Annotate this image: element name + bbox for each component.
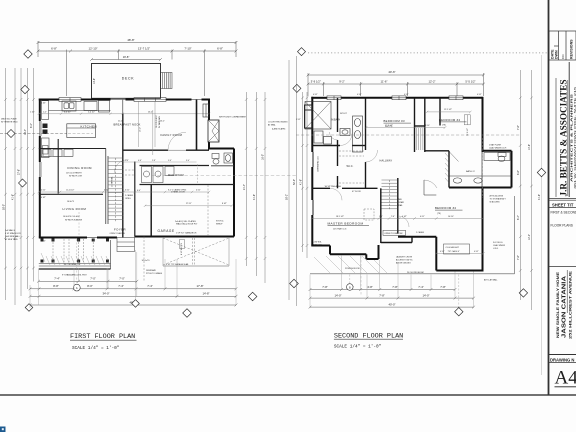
svg-text:12'-2 1/2": 12'-2 1/2" bbox=[444, 109, 452, 111]
closets bbox=[417, 115, 471, 150]
svg-text:23'-2": 23'-2" bbox=[148, 111, 153, 113]
family room south wall bbox=[124, 149, 210, 151]
svg-text:14'-8": 14'-8" bbox=[528, 144, 531, 150]
left bay bump bbox=[305, 105, 313, 128]
svg-text:5'-0": 5'-0" bbox=[168, 160, 172, 162]
svg-text:7'-4": 7'-4" bbox=[118, 284, 124, 288]
svg-text:TO STORAGE ATT: TO STORAGE ATT bbox=[490, 198, 507, 201]
svg-text:AT SEAL: AT SEAL bbox=[268, 123, 276, 126]
svg-text:W/ FANS ABV: W/ FANS ABV bbox=[158, 115, 161, 128]
svg-text:1'-0": 1'-0" bbox=[125, 160, 129, 162]
left wall window thin bbox=[40, 121, 41, 177]
svg-text:FIRST FLOOR PLAN: FIRST FLOOR PLAN bbox=[70, 333, 135, 341]
svg-text:10'-10": 10'-10" bbox=[448, 216, 454, 218]
svg-text:(7'8): (7'8) bbox=[442, 125, 446, 127]
svg-text:SCALE 1/4" = 1'-0": SCALE 1/4" = 1'-0" bbox=[334, 345, 382, 350]
svg-text:CLG HEIGHT: CLG HEIGHT bbox=[446, 247, 460, 249]
svg-text:OPEN TO BELOW: OPEN TO BELOW bbox=[384, 233, 403, 235]
svg-text:18'-1 1/2": 18'-1 1/2" bbox=[336, 216, 344, 218]
svg-text:FLOOR PLANS: FLOOR PLANS bbox=[551, 224, 573, 228]
svg-text:GARAGE: GARAGE bbox=[158, 229, 175, 233]
svg-text:7'-10": 7'-10" bbox=[184, 46, 191, 50]
svg-text:SKYLIT: SKYLIT bbox=[340, 113, 348, 115]
svg-text:50'-2": 50'-2" bbox=[286, 194, 289, 200]
svg-text:COLOR THRU SIDING: COLOR THRU SIDING bbox=[268, 122, 288, 124]
svg-text:252 HILLCREST AVENUE: 252 HILLCREST AVENUE bbox=[569, 270, 573, 339]
svg-text:U.D.F.: U.D.F. bbox=[493, 248, 499, 250]
svg-text:11'-6": 11'-6" bbox=[381, 79, 388, 83]
svg-text:PITCH TO GRADE: PITCH TO GRADE bbox=[146, 272, 163, 275]
svg-text:2 BAY FLUSH: 2 BAY FLUSH bbox=[489, 144, 502, 147]
svg-text:AT SIDE YARD: AT SIDE YARD bbox=[5, 238, 18, 241]
interior walls bbox=[312, 98, 482, 243]
svg-text:16'4x7'5: 16'4x7'5 bbox=[67, 201, 74, 203]
family room bay bbox=[203, 104, 209, 117]
svg-text:NEW SINGLE FAMILY HOME: NEW SINGLE FAMILY HOME bbox=[556, 271, 560, 338]
svg-text:21'-4": 21'-4" bbox=[243, 184, 246, 190]
svg-text:41'-8": 41'-8" bbox=[253, 194, 256, 200]
svg-text:3 1/2": 3 1/2" bbox=[104, 189, 109, 191]
svg-text:MID: MID bbox=[399, 199, 403, 201]
svg-text:7'-8": 7'-8" bbox=[322, 285, 328, 289]
svg-text:DWN: DWN bbox=[555, 50, 559, 59]
svg-text:14'-0": 14'-0" bbox=[334, 293, 341, 297]
svg-text:14'-8": 14'-8" bbox=[202, 292, 209, 296]
svg-text:4'-11": 4'-11" bbox=[420, 216, 425, 218]
svg-text:A: A bbox=[76, 286, 78, 290]
foyer closet bbox=[125, 170, 134, 175]
svg-text:CD: CD bbox=[561, 54, 565, 59]
svg-text:27'-11": 27'-11" bbox=[186, 203, 192, 205]
svg-text:1 1/2": 1 1/2" bbox=[30, 111, 35, 113]
svg-text:8 1/2": 8 1/2" bbox=[222, 203, 227, 205]
svg-text:4 1/2": 4 1/2" bbox=[41, 240, 46, 242]
foyer walls bbox=[135, 162, 234, 237]
svg-text:CLAD WNDW U.D.F.: CLAD WNDW U.D.F. bbox=[489, 146, 507, 149]
svg-text:2'-8": 2'-8" bbox=[152, 160, 156, 162]
dim 48-8 top bbox=[37, 41, 238, 96]
svg-text:2x6 ACQ SILL PLATES: 2x6 ACQ SILL PLATES bbox=[175, 220, 196, 223]
dining living divider bbox=[39, 193, 103, 195]
svg-text:1 CASED OPNG: 1 CASED OPNG bbox=[172, 189, 187, 192]
bath fixtures bbox=[449, 153, 512, 184]
left wall counter band bbox=[42, 101, 50, 158]
svg-text:LOW SGL: LOW SGL bbox=[313, 242, 322, 244]
svg-text:4'-6": 4'-6" bbox=[138, 160, 142, 162]
laundry chute dashed bbox=[364, 209, 374, 220]
svg-text:16'-4": 16'-4" bbox=[24, 129, 27, 135]
svg-text:16'-0": 16'-0" bbox=[262, 154, 265, 160]
porch roof outline bbox=[310, 273, 515, 275]
svg-text:KITCHEN: KITCHEN bbox=[81, 125, 98, 129]
svg-text:(7'8): (7'8) bbox=[437, 213, 441, 215]
svg-text:JASON CATANIA: JASON CATANIA bbox=[562, 276, 568, 338]
diamond tag on dim bbox=[25, 279, 298, 317]
dotted ref line top bbox=[308, 52, 548, 54]
svg-text:34'-0": 34'-0" bbox=[102, 292, 109, 296]
svg-text:12'-2": 12'-2" bbox=[428, 79, 435, 83]
svg-text:DRAWING N: DRAWING N bbox=[550, 358, 574, 363]
svg-text:ATTIC ACCESS: ATTIC ACCESS bbox=[490, 195, 504, 198]
dim 40-6 bbox=[307, 73, 485, 96]
top wall slider/windows (thin) bbox=[59, 99, 202, 101]
svg-text:4 1/2 WD STL: 4 1/2 WD STL bbox=[181, 243, 183, 255]
svg-text:W/ WD FLR ABOVE: W/ WD FLR ABOVE bbox=[65, 219, 83, 222]
svg-text:6'-8": 6'-8" bbox=[517, 170, 520, 175]
second floor outer walls bbox=[311, 97, 511, 271]
svg-text:HALLWAY: HALLWAY bbox=[380, 159, 393, 162]
svg-text:4 1/2": 4 1/2" bbox=[196, 189, 201, 191]
svg-text:27'-8": 27'-8" bbox=[18, 169, 21, 175]
svg-text:FIRST & SECOND: FIRST & SECOND bbox=[551, 211, 576, 215]
svg-text:52'-0": 52'-0" bbox=[293, 179, 296, 185]
svg-text:7'-6": 7'-6" bbox=[391, 216, 395, 218]
svg-text:BATH #2: BATH #2 bbox=[466, 170, 475, 173]
svg-text:4 1/2": 4 1/2" bbox=[474, 251, 479, 253]
powder room bbox=[211, 153, 234, 166]
stairs second floor bbox=[382, 180, 398, 210]
svg-text:50'-0": 50'-0" bbox=[2, 204, 5, 210]
door arcs second floor bbox=[330, 134, 409, 228]
svg-text:DINING ROOM: DINING ROOM bbox=[68, 166, 93, 170]
svg-text:12'-8 1/2": 12'-8 1/2" bbox=[385, 125, 393, 127]
svg-text:1/2 HR RAIL: 1/2 HR RAIL bbox=[111, 176, 114, 187]
svg-text:(LAND SCAPE): (LAND SCAPE) bbox=[272, 128, 286, 131]
garage door swing bbox=[144, 185, 229, 281]
room labels bbox=[63, 122, 184, 233]
svg-text:7'-0": 7'-0" bbox=[119, 277, 125, 281]
master bath bbox=[305, 102, 363, 153]
svg-text:26 LVL RIDGE BM: 26 LVL RIDGE BM bbox=[407, 272, 424, 274]
svg-text:DRIVEWAY: DRIVEWAY bbox=[146, 269, 157, 272]
svg-text:7'-0": 7'-0" bbox=[90, 277, 96, 281]
svg-text:ATTIC AT WALL: ATTIC AT WALL bbox=[484, 279, 498, 282]
bottom dim row2 bbox=[29, 287, 238, 290]
svg-text:12'6 TRAY CLG: 12'6 TRAY CLG bbox=[333, 228, 347, 231]
deck bbox=[92, 64, 161, 99]
svg-text:STOR &: STOR & bbox=[216, 221, 224, 223]
room labels second floor bbox=[328, 118, 461, 226]
second floor bottom dims bbox=[309, 288, 457, 291]
svg-text:14'-0": 14'-0" bbox=[422, 293, 429, 297]
svg-text:6'-8": 6'-8" bbox=[217, 46, 223, 50]
svg-text:W/ SITTING AREA: W/ SITTING AREA bbox=[325, 185, 342, 188]
svg-text:REVISIONS: REVISIONS bbox=[570, 39, 574, 59]
svg-text:OPEN TO ABOVE: OPEN TO ABOVE bbox=[110, 232, 126, 235]
svg-text:PORCH ROOF: PORCH ROOF bbox=[345, 268, 360, 270]
svg-text:5'-5 1/2": 5'-5 1/2" bbox=[465, 79, 475, 83]
mid dim verticals bbox=[245, 56, 296, 306]
svg-text:MASTER BEDROOM: MASTER BEDROOM bbox=[328, 222, 364, 226]
svg-text:BEDROOM #3: BEDROOM #3 bbox=[384, 119, 405, 123]
svg-text:LIVING ROOM: LIVING ROOM bbox=[63, 207, 87, 211]
svg-text:41'-8": 41'-8" bbox=[538, 194, 541, 200]
svg-text:SCALE 1/4" = 1'-0": SCALE 1/4" = 1'-0" bbox=[72, 346, 120, 351]
svg-text:4 1/2 SPACE FOR: 4 1/2 SPACE FOR bbox=[5, 232, 21, 235]
svg-text:BREAKFAST NOOK: BREAKFAST NOOK bbox=[114, 122, 141, 126]
title block left border bbox=[548, 0, 550, 395]
svg-text:DECK: DECK bbox=[122, 77, 135, 81]
svg-text:BEDROOM #4: BEDROOM #4 bbox=[439, 118, 460, 122]
left dim vertical second floor bbox=[301, 92, 308, 258]
bedroom2 dim bbox=[435, 252, 485, 254]
bath door diag bbox=[450, 152, 459, 162]
counter band y148 bbox=[39, 148, 106, 150]
right dim verticals bbox=[519, 55, 542, 375]
svg-text:FOYER: FOYER bbox=[114, 228, 126, 232]
svg-text:7'-8": 7'-8" bbox=[440, 285, 446, 289]
svg-text:16'-0x7'0: 16'-0x7'0 bbox=[142, 260, 151, 262]
svg-text:3'-4": 3'-4" bbox=[186, 160, 190, 162]
svg-text:A4: A4 bbox=[555, 368, 576, 389]
svg-text:DBLE SILL PLATE: DBLE SILL PLATE bbox=[1, 118, 17, 121]
first floor outer walls bbox=[39, 99, 234, 238]
fireplace bbox=[208, 120, 219, 142]
svg-text:16-0 CLG HGT: 16-0 CLG HGT bbox=[156, 114, 158, 128]
dim string top bbox=[307, 82, 485, 96]
svg-text:17'-8": 17'-8" bbox=[196, 284, 203, 288]
svg-text:19'-8": 19'-8" bbox=[123, 55, 130, 59]
svg-text:6'-8": 6'-8" bbox=[51, 46, 57, 50]
svg-text:41'-8": 41'-8" bbox=[299, 179, 302, 185]
dashed ref mid bbox=[296, 134, 520, 136]
svg-text:13'-8": 13'-8" bbox=[93, 78, 96, 84]
svg-text:BEDROOM #2: BEDROOM #2 bbox=[435, 206, 456, 210]
svg-text:4 1/2": 4 1/2" bbox=[41, 102, 46, 104]
svg-text:4 1/2 TYP GARAGE SLAB: 4 1/2 TYP GARAGE SLAB bbox=[166, 263, 189, 266]
svg-text:13'-2": 13'-2" bbox=[140, 127, 142, 132]
bottom dim row1 bbox=[37, 280, 138, 283]
svg-text:7'-4": 7'-4" bbox=[147, 284, 153, 288]
svg-text:6'7 DOOR: 6'7 DOOR bbox=[352, 191, 361, 193]
svg-text:FAMILY ROOM: FAMILY ROOM bbox=[161, 133, 183, 137]
stair first floor bbox=[106, 100, 123, 238]
svg-text:RAIL: RAIL bbox=[399, 204, 403, 207]
open to below box bbox=[383, 230, 406, 235]
interior dim y218 bbox=[311, 217, 484, 220]
svg-text:6'-4 1/2": 6'-4 1/2" bbox=[64, 111, 71, 113]
svg-text:5'4 COLUMNS TYP: 5'4 COLUMNS TYP bbox=[64, 264, 81, 266]
bottom dim row3 bbox=[29, 295, 238, 298]
svg-text:2 HR FIRE WALL: 2 HR FIRE WALL bbox=[5, 235, 20, 238]
svg-text:4 1/2": 4 1/2" bbox=[313, 94, 318, 96]
svg-text:M.BATH: M.BATH bbox=[332, 119, 341, 122]
svg-text:4'-10": 4'-10" bbox=[425, 125, 430, 127]
svg-text:13'-7 1/2": 13'-7 1/2" bbox=[138, 46, 150, 50]
svg-text:ACCESS TO ATTIC: ACCESS TO ATTIC bbox=[396, 259, 413, 262]
svg-text:MUD ROOM: MUD ROOM bbox=[168, 174, 184, 177]
kitchen counters bbox=[49, 101, 111, 113]
svg-text:1'-2": 1'-2" bbox=[43, 111, 47, 113]
svg-text:9'-2": 9'-2" bbox=[339, 79, 345, 83]
svg-text:STAIR: STAIR bbox=[399, 201, 405, 204]
svg-text:10'-6": 10'-6" bbox=[455, 251, 460, 253]
clg box bbox=[444, 244, 470, 254]
blue corner mark bbox=[0, 427, 6, 432]
svg-text:4 1/2": 4 1/2" bbox=[41, 189, 46, 191]
svg-text:WINDOW: WINDOW bbox=[313, 244, 322, 246]
svg-text:5'-4 1/2": 5'-4 1/2" bbox=[88, 111, 95, 113]
svg-text:8'-4": 8'-4" bbox=[517, 215, 520, 220]
deck stairs bbox=[161, 73, 173, 89]
sheet bottom border bbox=[0, 394, 576, 396]
svg-text:4 1/2": 4 1/2" bbox=[402, 216, 407, 218]
svg-text:WALLS ACQ SOLE PLT: WALLS ACQ SOLE PLT bbox=[176, 223, 198, 226]
svg-text:ABOVE CEILING: ABOVE CEILING bbox=[396, 262, 411, 265]
svg-text:8'-2": 8'-2" bbox=[30, 123, 33, 128]
stoop bbox=[117, 238, 135, 252]
nook dim labels bbox=[125, 160, 190, 162]
svg-text:2 CASED: 2 CASED bbox=[125, 194, 134, 197]
svg-text:1 OF 9'x7' GARAGE DR: 1 OF 9'x7' GARAGE DR bbox=[176, 232, 197, 235]
svg-text:4 1/2": 4 1/2" bbox=[41, 197, 46, 199]
svg-text:21'-2": 21'-2" bbox=[118, 121, 123, 123]
left dim verticals bbox=[4, 68, 35, 305]
svg-text:6'-0": 6'-0" bbox=[137, 190, 141, 192]
svg-text:W/H POCKET COMPARTMENT: W/H POCKET COMPARTMENT bbox=[219, 115, 247, 118]
svg-text:12'-10": 12'-10" bbox=[89, 46, 98, 50]
island bbox=[67, 124, 96, 138]
svg-text:7'-4": 7'-4" bbox=[54, 277, 60, 281]
svg-text:7'-8": 7'-8" bbox=[392, 285, 398, 289]
svg-text:15'-6 1/2": 15'-6 1/2" bbox=[467, 128, 469, 136]
left dashed ref line bbox=[0, 133, 67, 135]
svg-text:7'-8": 7'-8" bbox=[517, 255, 520, 260]
svg-text:W ACCESS: W ACCESS bbox=[490, 201, 501, 204]
svg-text:4 1/2": 4 1/2" bbox=[477, 94, 482, 96]
svg-text:W/ TERMITE SHLD: W/ TERMITE SHLD bbox=[1, 121, 18, 123]
svg-text:8'-0": 8'-0" bbox=[87, 284, 93, 288]
extension verticals bottom bbox=[30, 212, 236, 308]
svg-text:7'-8": 7'-8" bbox=[517, 125, 520, 130]
svg-text:12'-2": 12'-2" bbox=[528, 234, 531, 240]
svg-text:12'6 CLG HEIGHT: 12'6 CLG HEIGHT bbox=[66, 173, 82, 175]
svg-text:3'-9 1/2": 3'-9 1/2" bbox=[311, 79, 321, 83]
svg-text:40'-6": 40'-6" bbox=[388, 70, 395, 74]
svg-text:W/ WD FLOOR: W/ WD FLOOR bbox=[69, 176, 83, 178]
svg-text:11'-11 1/2": 11'-11 1/2" bbox=[66, 189, 75, 191]
garage dim string bbox=[144, 205, 233, 207]
svg-text:2 CASED: 2 CASED bbox=[416, 231, 425, 234]
svg-text:7'-8": 7'-8" bbox=[379, 293, 385, 297]
family room east col bbox=[196, 100, 198, 151]
svg-text:W.I.C.: W.I.C. bbox=[347, 165, 354, 168]
svg-text:16'4x12'0 CLG HGT: 16'4x12'0 CLG HGT bbox=[63, 216, 81, 218]
svg-text:8'-8": 8'-8" bbox=[53, 284, 59, 288]
svg-text:J.R. BETTS & ASSOCIATES: J.R. BETTS & ASSOCIATES bbox=[560, 80, 570, 197]
svg-text:9' STANDARD CEIL HGT: 9' STANDARD CEIL HGT bbox=[62, 273, 87, 276]
svg-text:7'8" OA: 7'8" OA bbox=[448, 250, 456, 253]
svg-text:4 1/2": 4 1/2" bbox=[296, 119, 301, 121]
svg-text:6 1/2": 6 1/2" bbox=[125, 189, 130, 191]
svg-text:4 1/2": 4 1/2" bbox=[440, 251, 445, 253]
svg-text:SHELF: SHELF bbox=[216, 223, 223, 225]
svg-text:3'x5' SLDG: 3'x5' SLDG bbox=[493, 242, 503, 244]
svg-text:SHEET TIT: SHEET TIT bbox=[552, 202, 574, 207]
svg-text:7'-4": 7'-4" bbox=[418, 285, 424, 289]
svg-text:2x6 WALLS: 2x6 WALLS bbox=[5, 229, 16, 232]
svg-text:4'-8": 4'-8" bbox=[367, 285, 373, 289]
svg-text:CLAD WNDW: CLAD WNDW bbox=[493, 244, 505, 247]
bottom dim row4 bbox=[29, 304, 238, 307]
circled tag bbox=[73, 284, 80, 291]
svg-text:48'-8": 48'-8" bbox=[127, 38, 134, 42]
svg-text:1'-6": 1'-6" bbox=[379, 216, 383, 218]
title block bbox=[549, 31, 576, 389]
porch bbox=[39, 238, 111, 270]
svg-text:4 1/2": 4 1/2" bbox=[357, 94, 362, 96]
svg-text:40'-0": 40'-0" bbox=[388, 302, 395, 306]
svg-text:OPNG: OPNG bbox=[125, 198, 131, 200]
svg-text:41'-8": 41'-8" bbox=[12, 194, 15, 200]
svg-text:CATHEDRAL CLG: CATHEDRAL CLG bbox=[316, 156, 319, 172]
svg-text:LAUNDRY CHUTE: LAUNDRY CHUTE bbox=[396, 256, 413, 259]
